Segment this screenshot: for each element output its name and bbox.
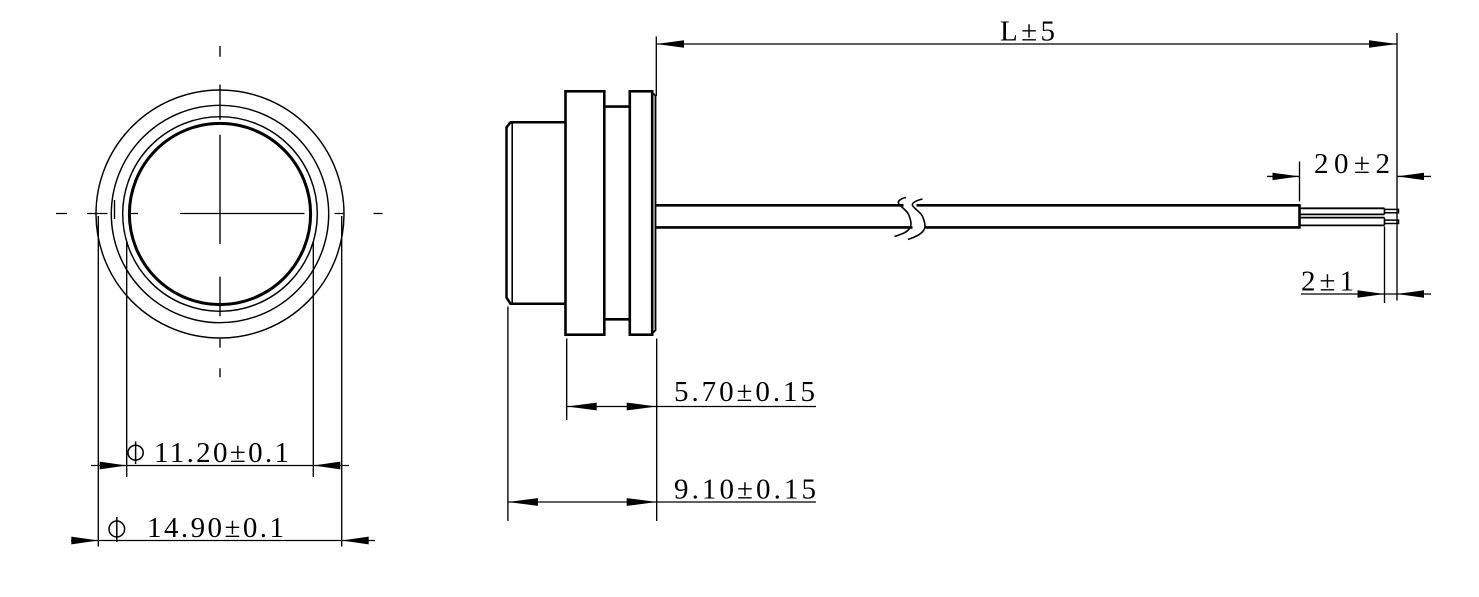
side view sensor cylinder with chamfered left corners [507, 122, 566, 304]
2 dimension left arrow [1358, 290, 1385, 297]
9.10 right arrow [627, 498, 657, 506]
dia 14.90 left extension line [97, 216, 99, 547]
side view rear flange [630, 91, 652, 334]
front view second circle [111, 105, 328, 322]
5.70/9.10 shared right extension line [656, 339, 658, 522]
9.10 left arrow [508, 498, 538, 506]
svg-text:9.10±0.15: 9.10±0.15 [674, 474, 816, 506]
dia 14.90 dimension line [71, 540, 375, 542]
dia 14.90 phi symbol [109, 521, 125, 537]
svg-text:11.20±0.1: 11.20±0.1 [154, 437, 289, 469]
svg-text:5.70±0.15: 5.70±0.15 [674, 376, 815, 408]
vertical centerline [219, 46, 221, 377]
dia 11.20 right extension line [312, 241, 314, 477]
cable jacket end edge [1298, 204, 1301, 228]
top conductor tip [1385, 209, 1399, 212]
svg-text:14.90±0.1: 14.90±0.1 [147, 512, 284, 544]
side view neck top edge [604, 105, 630, 108]
cable bottom line right of break [926, 226, 1300, 229]
long right extension line (L, 20, 2 dims) [1396, 33, 1398, 301]
20 dimension left tail [1267, 175, 1300, 177]
front view third circle [123, 117, 318, 312]
L dimension right arrow [1369, 40, 1397, 47]
cable bottom line left of break [656, 226, 913, 229]
side view neck bottom edge [604, 318, 630, 321]
dia 14.90 right extension line [341, 216, 343, 547]
20 dimension right tail [1397, 175, 1431, 177]
20 dimension right arrow [1397, 173, 1424, 180]
dia 11.20 dimension line [91, 465, 349, 467]
20 dimension left extension line [1299, 162, 1301, 202]
5.70 right arrow [627, 403, 657, 411]
side view large flange [566, 91, 605, 334]
svg-text:2±1: 2±1 [1301, 265, 1354, 297]
bottom wire lower line [1300, 224, 1385, 226]
horizontal centerline [56, 213, 383, 215]
2 dimension leader line [1301, 293, 1397, 295]
top wire upper line [1300, 207, 1385, 209]
cable top line left of break [656, 204, 904, 207]
front view inner thick circle (diaphragm) [129, 123, 310, 304]
bottom wire insulation end [1384, 218, 1386, 226]
dia 11.20 left arrow [100, 462, 127, 470]
9.10 dimension and leader line [508, 501, 816, 503]
bottom conductor tip [1385, 220, 1399, 223]
L dimension left arrow [656, 40, 684, 47]
2 dimension inner extension line [1384, 227, 1386, 304]
2 dimension right arrow [1397, 290, 1424, 297]
bottom wire upper line [1300, 217, 1385, 219]
5.70 dimension and leader line [567, 406, 816, 408]
cable top line right of break [917, 204, 1300, 207]
20 dimension left arrow [1273, 173, 1300, 180]
cable break squiggle right [908, 199, 925, 240]
2 dimension right tail [1397, 293, 1431, 295]
dia 11.20 right arrow [313, 462, 340, 470]
dia 11.20 left extension line [126, 241, 128, 477]
L dimension line [656, 43, 1397, 45]
top wire lower line [1300, 213, 1385, 215]
cable break squiggle left [895, 198, 911, 237]
side view rear face line with chamfers [652, 93, 655, 334]
9.10 left extension line [507, 307, 509, 522]
small flat notch segment on left of inner rings [114, 200, 116, 219]
dia 11.20 phi symbol [128, 445, 143, 460]
front view outer circle (housing OD) [96, 90, 344, 338]
5.70 left extension line [566, 339, 568, 421]
dia 14.90 right arrow [342, 537, 369, 545]
top wire insulation end [1384, 208, 1386, 214]
svg-text:L±5: L±5 [1000, 16, 1055, 48]
L dimension left extension line [655, 37, 657, 97]
cylinder face chamfer edge line [511, 123, 513, 303]
dia 14.90 left arrow [71, 537, 98, 545]
5.70 left arrow [567, 403, 597, 411]
